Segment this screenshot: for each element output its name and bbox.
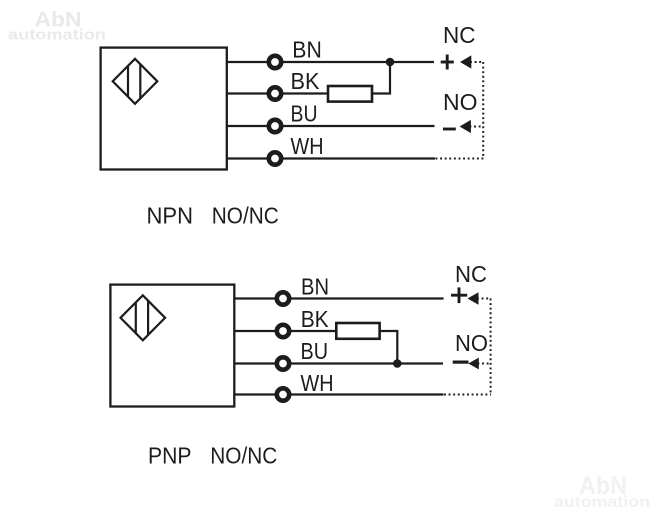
dotted link NO arrow to bus (PNP): [478, 363, 492, 365]
wire BK (box to resistor): [227, 92, 329, 94]
terminal BU (PNP): [277, 357, 289, 369]
dotted link WH to bus: [436, 158, 484, 160]
supply minus mark (PNP): [453, 361, 469, 364]
node junction on BN: [386, 58, 395, 67]
resistor R2: [336, 323, 379, 339]
dotted link NC arrow to bus (PNP): [477, 298, 491, 300]
NO arrow: [460, 120, 471, 133]
dotted bus vertical (PNP): [490, 299, 492, 395]
proximity sensor symbol: [113, 59, 158, 104]
svg-text:automation: automation: [8, 28, 106, 44]
svg-text:BK: BK: [291, 68, 321, 94]
resistor R1: [328, 86, 372, 102]
NO arrow (PNP): [468, 358, 479, 370]
svg-text:NPN: NPN: [147, 203, 194, 229]
wire BU: [227, 125, 435, 127]
dotted link NO arrow to bus: [470, 126, 484, 128]
svg-text:BU: BU: [301, 338, 329, 364]
dotted link WH to bus (PNP): [444, 394, 491, 396]
svg-text:NO: NO: [443, 89, 478, 115]
wire BN (PNP): [234, 297, 443, 299]
wire BU (PNP): [234, 362, 443, 364]
wire resistor to BN node: [372, 62, 390, 94]
terminal BK (PNP): [277, 325, 289, 337]
wire BN: [227, 61, 434, 63]
terminal WH: [269, 152, 281, 164]
supply plus mark: [441, 55, 454, 70]
svg-text:BN: BN: [301, 273, 329, 299]
NC arrow: [460, 55, 471, 68]
svg-text:NO: NO: [455, 330, 488, 356]
svg-text:BK: BK: [301, 306, 330, 332]
svg-text:BU: BU: [291, 101, 318, 127]
sensor body (NPN): [101, 48, 227, 170]
dotted link NC arrow to bus: [470, 61, 484, 63]
wire WH (PNP): [234, 393, 443, 395]
svg-text:WH: WH: [291, 133, 324, 159]
svg-text:NO/NC: NO/NC: [210, 442, 277, 468]
watermark top-left: [8, 8, 106, 44]
dotted bus vertical: [482, 62, 484, 159]
wire BK (PNP, box to resistor): [234, 330, 337, 332]
supply plus mark (PNP): [451, 287, 467, 303]
svg-text:WH: WH: [301, 370, 334, 396]
svg-text:automation: automation: [554, 494, 650, 511]
watermark bottom-right: [554, 472, 650, 511]
svg-text:PNP: PNP: [148, 442, 192, 468]
wire resistor to BU node: [380, 331, 398, 364]
terminal WH (PNP): [277, 388, 289, 400]
wire WH: [227, 157, 435, 159]
NC arrow (PNP): [468, 292, 479, 305]
svg-text:NC: NC: [443, 22, 476, 48]
terminal BN: [269, 56, 281, 68]
terminal BK: [269, 87, 281, 99]
sensor body (PNP): [110, 285, 234, 407]
node junction on BU: [393, 359, 402, 368]
svg-text:NC: NC: [455, 261, 487, 287]
terminal BU: [269, 120, 281, 132]
svg-text:BN: BN: [292, 37, 322, 63]
terminal BN (PNP): [277, 292, 289, 304]
svg-text:NO/NC: NO/NC: [212, 203, 279, 229]
supply minus mark: [443, 128, 456, 131]
proximity sensor symbol (PNP): [121, 295, 166, 340]
